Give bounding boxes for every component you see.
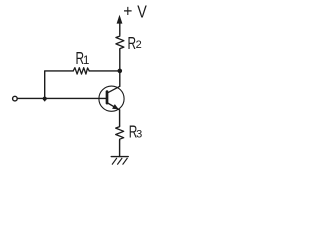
- transistor base bar: [106, 92, 109, 104]
- svg-text:+: +: [123, 2, 132, 21]
- svg-text:1: 1: [83, 55, 89, 67]
- transistor body circle: [99, 86, 124, 111]
- resistor R3: [116, 126, 124, 141]
- wire input to base: [18, 97, 107, 99]
- resistor R1: [73, 68, 89, 74]
- wire R1 right to junction: [89, 70, 120, 72]
- node collector junction: [118, 69, 123, 74]
- wire R3 to ground: [119, 141, 121, 157]
- transistor Q1: [99, 86, 124, 111]
- power +V arrow: [117, 15, 123, 34]
- wire junction to collector: [119, 71, 121, 86]
- wire R2 to collector junction: [119, 50, 121, 71]
- wire corner to R1 left: [45, 71, 73, 101]
- svg-text:3: 3: [136, 129, 142, 141]
- transistor collector lead: [108, 86, 120, 93]
- svg-text:2: 2: [136, 39, 142, 51]
- input terminal: [13, 96, 18, 101]
- wire emitter to R3: [119, 110, 121, 126]
- node base junction: [43, 97, 47, 101]
- resistor R2: [116, 34, 124, 50]
- svg-text:V: V: [137, 3, 147, 22]
- transistor emitter lead: [108, 103, 120, 110]
- transistor emitter arrow: [112, 104, 119, 109]
- ground: [111, 157, 128, 165]
